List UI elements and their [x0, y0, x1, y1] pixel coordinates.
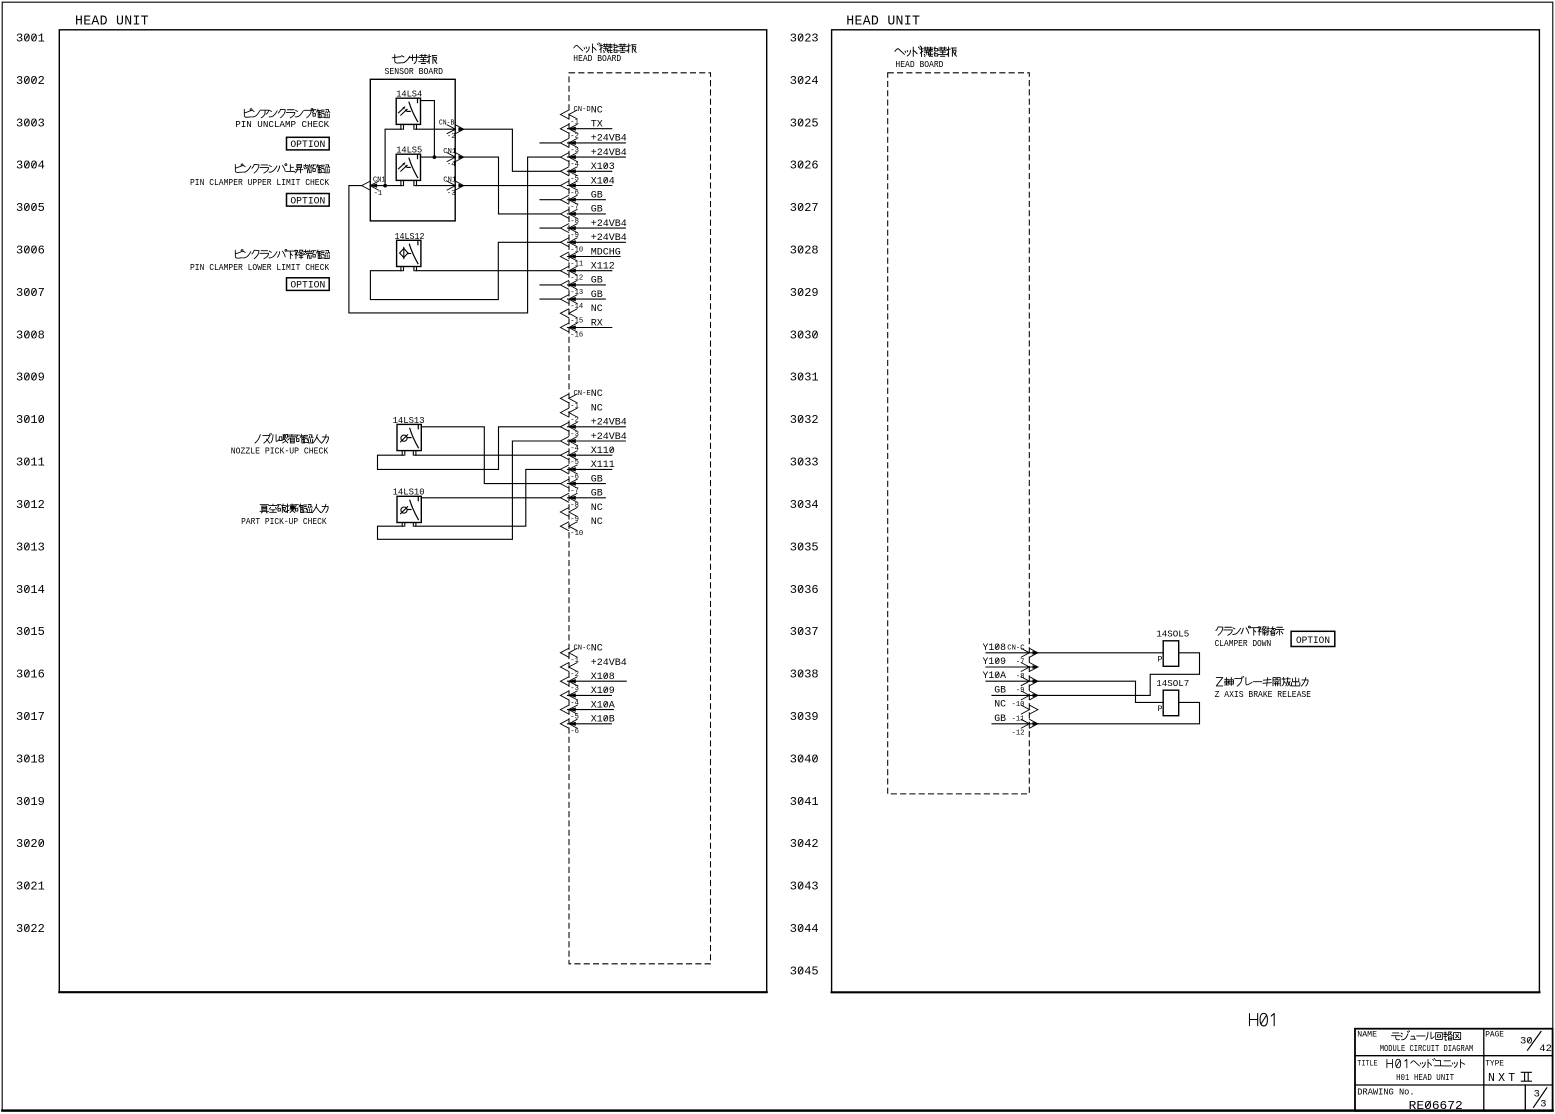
svg-text:42: 42: [1539, 1043, 1552, 1055]
svg-text:-1: -1: [570, 657, 579, 665]
svg-text:PART PICK-UP CHECK: PART PICK-UP CHECK: [241, 516, 327, 527]
svg-text:-8: -8: [570, 502, 579, 510]
svg-text:-10: -10: [570, 530, 583, 538]
wire CN1-4 to head pin -7 GB: [464, 157, 561, 214]
svg-text:NOZZLE PICK-UP CHECK: NOZZLE PICK-UP CHECK: [231, 445, 329, 456]
svg-text:3034: 3034: [790, 498, 819, 512]
svg-text:CN-D: CN-D: [574, 106, 592, 114]
svg-text:3039: 3039: [790, 710, 819, 724]
connector pin CN-C NC: [560, 648, 577, 657]
connector pin CN-E NC: [560, 394, 577, 403]
connector pin -2 +24VB4: [560, 139, 577, 148]
svg-text:NC: NC: [591, 517, 603, 528]
svg-text:-1: -1: [570, 402, 579, 410]
svg-text:DRAWING No.: DRAWING No.: [1357, 1088, 1414, 1098]
connector pin -13 GB: [560, 295, 577, 304]
connector pin -10 MDCHG: [560, 252, 577, 261]
svg-text:-9: -9: [1016, 687, 1025, 695]
head board label JP left: [574, 43, 636, 53]
svg-text:3032: 3032: [790, 413, 819, 427]
head board outline right sheet: [888, 73, 1030, 794]
connector pin -1 TX: [560, 124, 577, 133]
svg-text:-3: -3: [570, 147, 579, 155]
connector pin CN-C Y108: [1021, 648, 1038, 657]
14LS4 pin legs: [400, 124, 402, 129]
svg-text:PIN CLAMPER LOWER LIMIT CHECK: PIN CLAMPER LOWER LIMIT CHECK: [190, 262, 330, 273]
wire 14LS13 right leg to head pin -4 X110: [415, 454, 561, 456]
wire 14LS4 left leg to +24 net: [385, 129, 402, 185]
svg-text:-14: -14: [570, 303, 583, 311]
wire Y10A to 14SOL7: [1038, 681, 1163, 702]
svg-text:-11: -11: [570, 261, 583, 269]
label pin clamper upper limit JP: [235, 164, 329, 173]
wire 14SOL7 return to GB -11: [1038, 702, 1200, 723]
junction 14LS4/14LS5 contacts: [433, 155, 437, 159]
svg-text:3012: 3012: [16, 498, 45, 512]
svg-text:3028: 3028: [790, 244, 819, 258]
label z axis brake JP: [1216, 676, 1308, 686]
svg-text:Y10A: Y10A: [982, 670, 1006, 681]
label nozzle pick-up JP: [255, 433, 329, 443]
svg-text:HEAD BOARD: HEAD BOARD: [573, 54, 621, 64]
svg-text:3001: 3001: [16, 32, 45, 46]
svg-text:3021: 3021: [16, 880, 45, 894]
svg-text:NC: NC: [994, 699, 1006, 710]
svg-text:-4: -4: [570, 161, 579, 169]
connector pin -6 GB: [560, 479, 577, 488]
svg-text:MODULE CIRCUIT DIAGRAM: MODULE CIRCUIT DIAGRAM: [1380, 1043, 1474, 1054]
connector pin -4 X110: [560, 451, 577, 460]
svg-text:14SOL5: 14SOL5: [1156, 628, 1189, 639]
svg-text:-3: -3: [447, 190, 456, 198]
head board label JP right: [895, 46, 957, 57]
svg-text:-10: -10: [570, 246, 583, 254]
limit switch 14LS5: [396, 154, 420, 180]
option box 3: [287, 278, 330, 291]
svg-text:OPTION: OPTION: [290, 140, 325, 151]
svg-text:3016: 3016: [16, 668, 45, 682]
svg-text:3009: 3009: [16, 371, 45, 385]
sensor board label JP: [392, 54, 437, 63]
svg-text:-2: -2: [447, 133, 456, 141]
svg-text:-13: -13: [570, 289, 583, 297]
connector pin -5 X104: [560, 181, 577, 190]
svg-text:PIN UNCLAMP CHECK: PIN UNCLAMP CHECK: [235, 119, 329, 130]
svg-text:CN-E: CN-E: [574, 390, 592, 398]
sensor board pin CN-B-2: [447, 125, 464, 134]
connector pin -8 NC: [560, 508, 577, 517]
limit switch 14LS13: [397, 424, 421, 450]
option box 1: [287, 137, 330, 150]
limit switch 14LS4: [396, 98, 420, 124]
svg-text:+24VB4: +24VB4: [591, 658, 627, 669]
svg-text:3031: 3031: [790, 371, 819, 385]
svg-text:3015: 3015: [16, 625, 45, 639]
solenoid 14SOL5: [1163, 641, 1179, 667]
14LS10 pin legs: [401, 523, 403, 527]
svg-text:Y109: Y109: [982, 656, 1006, 667]
svg-text:-4: -4: [570, 699, 579, 707]
svg-text:-9: -9: [570, 516, 579, 524]
svg-text:-4: -4: [570, 445, 579, 453]
svg-text:-10: -10: [1012, 701, 1025, 709]
wire 14LS10 right leg to head pin -5 X111: [415, 469, 561, 526]
wire CN1-3 to head pin -5 X104: [464, 185, 561, 187]
svg-text:-7: -7: [570, 204, 579, 212]
svg-text:-8: -8: [570, 218, 579, 226]
svg-text:3038: 3038: [790, 668, 819, 682]
wire Y108 to 14SOL5: [1038, 652, 1163, 654]
svg-text:3018: 3018: [16, 752, 45, 766]
title block small cell divider: [1524, 1085, 1526, 1111]
label clamper down JP: [1216, 627, 1284, 636]
connector pin -5 X10B: [560, 719, 577, 728]
svg-text:3044: 3044: [790, 922, 819, 936]
connector pin -7 GB: [560, 493, 577, 502]
connector pin -15 RX: [560, 323, 577, 332]
left sheet frame HEAD UNIT: [59, 30, 766, 992]
right sheet frame HEAD UNIT: [832, 30, 1540, 993]
svg-text:Z AXIS BRAKE RELEASE: Z AXIS BRAKE RELEASE: [1215, 689, 1312, 700]
svg-text:NC: NC: [591, 403, 603, 414]
sensor board outline: [370, 79, 455, 221]
svg-text:Y108: Y108: [982, 642, 1006, 653]
svg-text:-7: -7: [570, 488, 579, 496]
solenoid 14SOL7: [1163, 690, 1179, 716]
connector pin -1 NC: [560, 408, 577, 417]
svg-text:3006: 3006: [16, 244, 45, 258]
svg-text:CN1: CN1: [443, 177, 456, 185]
svg-text:3007: 3007: [16, 286, 45, 300]
wire CN-B-2 to head pin -4 X103: [464, 129, 561, 171]
svg-text:CN1: CN1: [373, 177, 386, 185]
svg-text:3026: 3026: [790, 159, 819, 173]
connector pin -4 X103: [560, 167, 577, 176]
connector pin -12 GB: [560, 281, 577, 290]
svg-text:OPTION: OPTION: [1296, 636, 1330, 647]
svg-text:NC: NC: [591, 644, 603, 655]
svg-text:3003: 3003: [16, 116, 45, 130]
wire 14LS10 contact to head pin -7 GB: [421, 497, 560, 499]
svg-text:3019: 3019: [16, 795, 45, 809]
sensor board pin CN1-1: [362, 181, 379, 190]
svg-text:SENSOR BOARD: SENSOR BOARD: [385, 66, 444, 77]
svg-text:3029: 3029: [790, 286, 819, 300]
svg-text:3025: 3025: [790, 116, 819, 130]
connector pin -4 X10A: [560, 705, 577, 714]
svg-text:TYPE: TYPE: [1485, 1059, 1504, 1068]
limit switch 14LS10: [397, 496, 421, 522]
svg-text:3027: 3027: [790, 201, 819, 215]
svg-text:-6: -6: [570, 190, 579, 198]
connector pin -11 X112: [560, 266, 577, 275]
title block row dividers: [1355, 1055, 1553, 1057]
svg-text:-2: -2: [570, 671, 579, 679]
svg-text:3035: 3035: [790, 540, 819, 554]
svg-text:3011: 3011: [16, 456, 45, 470]
connector pin -10 NC: [1021, 705, 1038, 714]
connector pin -5 X111: [560, 465, 577, 474]
svg-text:-5: -5: [570, 459, 579, 467]
limit switch 14LS12: [397, 240, 421, 266]
connector pin -9 NC: [560, 522, 577, 531]
connector pin -11 GB: [1021, 719, 1038, 728]
svg-text:3042: 3042: [790, 837, 819, 851]
svg-text:-3: -3: [570, 431, 579, 439]
svg-text:3017: 3017: [16, 710, 45, 724]
svg-text:NXT: NXT: [1488, 1072, 1518, 1085]
head board outline left sheet: [569, 73, 711, 964]
svg-text:-2: -2: [570, 417, 579, 425]
svg-text:-1: -1: [374, 190, 383, 198]
svg-text:CN-B: CN-B: [439, 119, 455, 127]
svg-text:-5: -5: [570, 175, 579, 183]
junction +24 net at 14LS4 branch: [383, 184, 387, 188]
title block column divider: [1483, 1029, 1485, 1111]
wire 14LS13 contact to head pin -6 GB: [421, 427, 560, 484]
connector pin -9 +24VB4: [560, 238, 577, 247]
14LS13 pin legs: [401, 451, 403, 456]
svg-text:3: 3: [1540, 1099, 1546, 1111]
sensor board pin CN1-4: [447, 153, 464, 162]
label pin unclamp check JP: [244, 109, 329, 118]
title block title JP H01 head unit: [1387, 1058, 1465, 1067]
wire CN1-1 to head pin -3 +24VB4: [349, 157, 561, 313]
connector pin -1 +24VB4: [560, 663, 577, 672]
svg-text:3045: 3045: [790, 964, 819, 978]
svg-text:CLAMPER DOWN: CLAMPER DOWN: [1215, 638, 1272, 649]
wire 14LS13 left leg to head pin -2 +24VB4: [378, 427, 561, 470]
connector pin -2 X108: [560, 677, 577, 686]
14LS5 pin legs: [400, 180, 402, 185]
svg-text:3023: 3023: [790, 32, 819, 46]
svg-text:OPTION: OPTION: [290, 196, 325, 207]
connector pin -3 +24VB4: [560, 437, 577, 446]
option box right: [1291, 631, 1335, 646]
svg-text:NC: NC: [591, 105, 603, 116]
connector pin -7 GB: [560, 210, 577, 219]
svg-text:OPTION: OPTION: [290, 281, 325, 292]
svg-text:NC: NC: [591, 304, 603, 315]
svg-text:3013: 3013: [16, 540, 45, 554]
svg-text:-5: -5: [570, 714, 579, 722]
connector pin -2 +24VB4: [560, 422, 577, 431]
svg-text:HEAD BOARD: HEAD BOARD: [895, 60, 943, 70]
svg-text:-12: -12: [1012, 730, 1025, 738]
svg-text:3043: 3043: [790, 880, 819, 894]
wire CN1-1 +24VB4 inside sensor board: [370, 185, 402, 187]
svg-text:-8: -8: [1016, 673, 1025, 681]
svg-text:3004: 3004: [16, 159, 45, 173]
svg-text:-7: -7: [1016, 659, 1025, 667]
sensor board pin CN1-3: [447, 181, 464, 190]
connector pin CN-D NC: [560, 110, 577, 119]
svg-text:3041: 3041: [790, 795, 819, 809]
svg-text:3005: 3005: [16, 201, 45, 215]
svg-text:NAME: NAME: [1357, 1031, 1377, 1040]
svg-text:-6: -6: [570, 728, 579, 736]
svg-text:TITLE: TITLE: [1357, 1059, 1377, 1068]
svg-text:CN-C: CN-C: [1007, 644, 1025, 652]
svg-text:3024: 3024: [790, 74, 819, 88]
svg-text:-12: -12: [570, 275, 583, 283]
option box 2: [287, 194, 330, 207]
connector pin -3 X109: [560, 691, 577, 700]
label pin clamper lower limit JP: [235, 250, 329, 259]
connector pin -14 NC: [560, 309, 577, 318]
wire 14LS12 left leg to head pin -9 +24VB4: [370, 242, 560, 299]
svg-text:-11: -11: [1012, 715, 1025, 723]
wire CN1-3 inside sensor board: [415, 185, 455, 187]
connector pin -8 Y10A: [1021, 677, 1038, 686]
svg-text:3022: 3022: [16, 922, 45, 936]
svg-text:GB: GB: [994, 713, 1006, 724]
title block outline: [1355, 1029, 1553, 1111]
wire 14SOL5 return to GB -9: [1038, 653, 1200, 696]
svg-text:3036: 3036: [790, 583, 819, 597]
svg-text:3033: 3033: [790, 456, 819, 470]
svg-text:-4: -4: [447, 161, 456, 169]
svg-text:P: P: [1158, 705, 1163, 714]
svg-text:RE06672: RE06672: [1409, 1099, 1463, 1113]
svg-text:3014: 3014: [16, 583, 45, 597]
svg-text:3008: 3008: [16, 328, 45, 342]
svg-text:HEAD UNIT: HEAD UNIT: [846, 15, 920, 30]
title block name JP module circuit diagram: [1392, 1031, 1461, 1040]
svg-text:-6: -6: [570, 473, 579, 481]
wire 14LS10 left leg to head pin -3 +24VB4: [378, 441, 561, 539]
svg-text:3037: 3037: [790, 625, 819, 639]
svg-text:PIN CLAMPER UPPER LIMIT CHECK: PIN CLAMPER UPPER LIMIT CHECK: [190, 177, 330, 188]
connector pin -8 +24VB4: [560, 224, 577, 233]
svg-text:NC: NC: [591, 503, 603, 514]
connector pin -7 Y109: [1021, 663, 1038, 672]
connector pin -3 +24VB4: [560, 153, 577, 162]
svg-text:14SOL7: 14SOL7: [1156, 678, 1189, 689]
14LS12 pin legs: [400, 267, 402, 271]
wire CN1-4 inside sensor board: [421, 156, 456, 158]
svg-text:PAGE: PAGE: [1485, 1031, 1504, 1040]
svg-text:-9: -9: [570, 232, 579, 240]
svg-text:-16: -16: [570, 332, 583, 340]
svg-text:HEAD UNIT: HEAD UNIT: [75, 15, 149, 30]
svg-text:P: P: [1158, 656, 1163, 665]
svg-text:GB: GB: [994, 684, 1006, 695]
svg-text:CN1: CN1: [443, 148, 456, 156]
sheet code H01: [1249, 1013, 1274, 1026]
wire 14LS12 right leg to head pin -11 X112: [415, 270, 560, 272]
label part pick-up JP: [260, 504, 328, 513]
svg-text:-3: -3: [570, 685, 579, 693]
connector pin -6 GB: [560, 195, 577, 204]
connector pin -9 GB: [1021, 691, 1038, 700]
svg-text:-2: -2: [570, 133, 579, 141]
svg-text:H01 HEAD UNIT: H01 HEAD UNIT: [1396, 1072, 1454, 1083]
svg-text:3002: 3002: [16, 74, 45, 88]
svg-text:CN-C: CN-C: [574, 645, 592, 653]
wire 14LS4 contact to CN1-4 net: [421, 101, 435, 158]
wire 14LS4 right leg to CN-B-2: [415, 128, 455, 130]
svg-text:NC: NC: [591, 389, 603, 400]
svg-text:-1: -1: [570, 119, 579, 127]
svg-text:-15: -15: [570, 317, 583, 325]
